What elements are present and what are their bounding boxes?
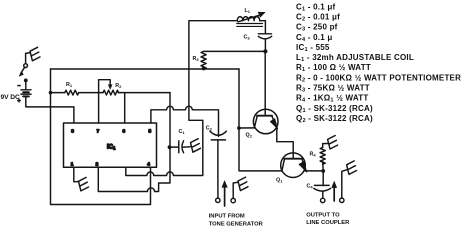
terminal input right xyxy=(231,198,235,202)
battery minus label xyxy=(17,85,21,87)
svg-text:5: 5 xyxy=(149,129,152,134)
svg-text:C2: C2 xyxy=(206,126,213,132)
wire pin 6 stub xyxy=(124,93,126,123)
resistor R1 xyxy=(65,90,79,95)
wire net pin6-pin2 vertical V1 with C1 tap xyxy=(155,93,170,192)
svg-text:Q1 - SK-3122 (RCA): Q1 - SK-3122 (RCA) xyxy=(296,104,373,114)
svg-text:R2: R2 xyxy=(115,83,122,89)
node Q2 base junction xyxy=(237,126,241,130)
capacitor C3 xyxy=(258,34,271,39)
IC1 555 box xyxy=(64,123,157,167)
terminal input left xyxy=(216,198,220,202)
parts list xyxy=(296,2,461,124)
wire left vertical / bottom rail / pin 4 riser xyxy=(51,69,151,205)
svg-text:6: 6 xyxy=(123,129,126,134)
transistor Q1 xyxy=(281,153,307,178)
R2 wiper arrow xyxy=(108,85,112,90)
svg-text:2: 2 xyxy=(96,162,99,167)
capacitor C4 xyxy=(314,171,331,198)
svg-text:LINE COUPLER: LINE COUPLER xyxy=(306,220,350,226)
ground (input) xyxy=(238,177,248,191)
battery B1 9V xyxy=(21,80,31,96)
battery plus label xyxy=(17,99,21,103)
wire R3 top line xyxy=(204,50,266,52)
svg-text:C1: C1 xyxy=(179,129,186,135)
svg-text:1: 1 xyxy=(71,162,74,167)
ground (output) xyxy=(347,161,357,175)
ground (pin 1) xyxy=(79,177,89,191)
svg-text:IC1 - 555: IC1 - 555 xyxy=(296,43,330,53)
input arrow xyxy=(222,181,227,206)
node R1 left xyxy=(49,91,53,95)
svg-text:Q1: Q1 xyxy=(276,178,283,184)
wire output right to ground xyxy=(342,170,348,199)
svg-text:INPUT FROM: INPUT FROM xyxy=(209,214,245,220)
svg-text:C1 - 0.1 μf: C1 - 0.1 μf xyxy=(296,2,335,12)
terminal output left xyxy=(321,198,325,202)
svg-text:L1 - 32mh ADJUSTABLE COIL: L1 - 32mh ADJUSTABLE COIL xyxy=(296,53,414,63)
wire R2 right to V1 xyxy=(118,92,170,94)
svg-text:R3 - 75KΩ ½ WATT: R3 - 75KΩ ½ WATT xyxy=(296,84,370,94)
wire R1-R2 xyxy=(79,92,103,94)
svg-text:C4 - 0.1 μ: C4 - 0.1 μ xyxy=(296,33,332,43)
svg-text:OUTPUT TO: OUTPUT TO xyxy=(306,213,340,219)
svg-text:4: 4 xyxy=(147,162,150,167)
wire R2 wiper bracket xyxy=(99,80,111,93)
node C1 tap on V1 xyxy=(168,145,172,149)
svg-text:R4: R4 xyxy=(310,152,317,158)
wire Q2 base lead xyxy=(239,127,254,129)
svg-text:L1: L1 xyxy=(245,8,251,14)
resistor R2 (potentiometer) xyxy=(103,90,119,95)
ground (above R4) xyxy=(328,136,338,150)
wire right vertical rail to bases xyxy=(239,69,282,171)
svg-text:C4: C4 xyxy=(307,184,314,190)
node battery top junction xyxy=(24,79,28,83)
svg-text:IC1: IC1 xyxy=(107,145,116,151)
capacitor C1 xyxy=(170,141,191,153)
resistor R4 xyxy=(320,148,325,165)
svg-text:C3: C3 xyxy=(244,35,251,41)
wire C3 bottom lead xyxy=(264,39,266,51)
wire battery plus to IC pin 8 xyxy=(26,96,74,123)
wire Q2 collector from junction xyxy=(264,51,266,115)
svg-text:R1: R1 xyxy=(66,82,73,88)
svg-text:R1 - 100 Ω ½ WATT: R1 - 100 Ω ½ WATT xyxy=(296,63,371,73)
resistor R3 xyxy=(201,51,206,69)
terminal output right xyxy=(340,198,344,202)
ground (C1) xyxy=(191,139,201,153)
wire pin 7 stub xyxy=(98,93,100,123)
node R3 bottom on rail xyxy=(202,67,206,71)
wire R4 bottom lead xyxy=(322,162,325,171)
svg-text:R2 - 0 - 100KΩ ½ WATT POTENTIO: R2 - 0 - 100KΩ ½ WATT POTENTIOMETER xyxy=(296,73,461,83)
wire R4 top to ground xyxy=(323,144,329,148)
node C3/R3/Q2 junction xyxy=(263,49,267,53)
svg-text:7: 7 xyxy=(97,129,100,134)
svg-text:Q2: Q2 xyxy=(246,133,253,139)
node emitter/R4/C4 junction xyxy=(321,169,325,173)
svg-text:8: 8 xyxy=(71,129,74,134)
wire Q2 emitter to Q1 collector xyxy=(277,127,293,158)
svg-text:9V DC: 9V DC xyxy=(1,94,20,101)
transistor Q2 xyxy=(253,109,278,134)
inductor L1 (adjustable) xyxy=(237,12,266,26)
switch S1 xyxy=(19,64,28,77)
wire input right to ground xyxy=(233,182,238,198)
wire top rail xyxy=(51,68,240,70)
wire pin 2 line with hop over pin4 riser xyxy=(98,167,154,191)
wire R1 lead xyxy=(51,92,65,94)
wire pin 1 to ground xyxy=(74,167,79,182)
wire pin 3 line with hops, up to L1 xyxy=(126,21,238,176)
wire Q1 emitter lead xyxy=(305,170,323,172)
ground (chassis, above switch) xyxy=(26,47,40,63)
capacitor C2 xyxy=(210,131,227,198)
svg-text:TONE GENERATOR: TONE GENERATOR xyxy=(209,221,264,227)
svg-text:Q2 - SK-3122 (RCA): Q2 - SK-3122 (RCA) xyxy=(296,114,373,124)
svg-text:R3: R3 xyxy=(193,56,200,62)
wire pin 5 line with hops, down to C2 xyxy=(151,106,219,136)
output arrow xyxy=(332,181,337,201)
wire L1 right lead down to C3 xyxy=(260,21,266,34)
